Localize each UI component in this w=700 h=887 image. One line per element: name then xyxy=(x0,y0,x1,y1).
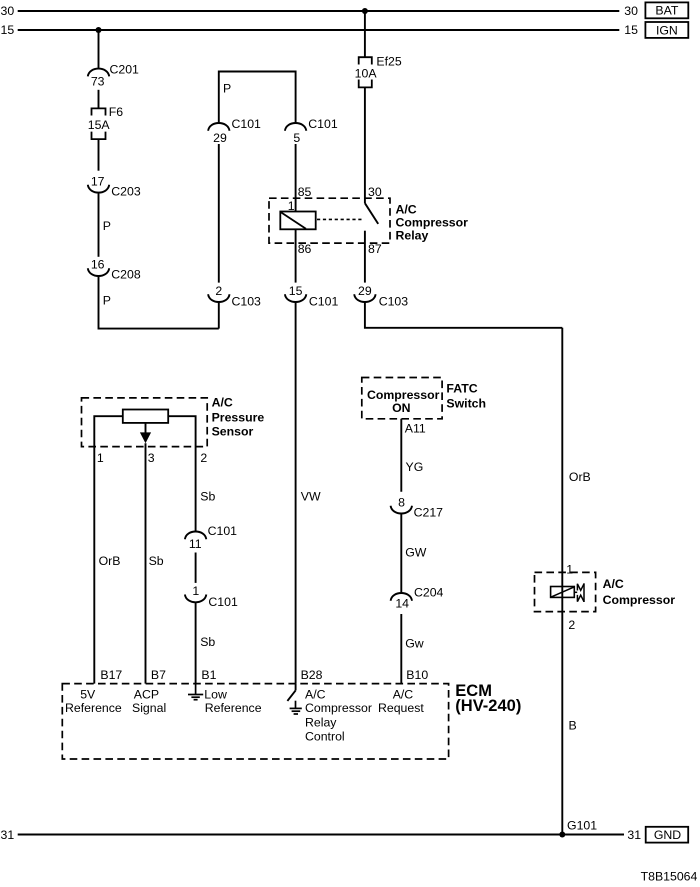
wire C201 to F6 xyxy=(98,90,100,109)
svg-text:C203: C203 xyxy=(111,184,141,198)
fuse F6 15A xyxy=(88,105,124,139)
svg-text:B7: B7 xyxy=(151,668,166,682)
svg-text:29: 29 xyxy=(213,131,227,145)
svg-text:T8B15064: T8B15064 xyxy=(641,870,698,884)
clutch xyxy=(577,583,584,602)
svg-text:Ef25: Ef25 xyxy=(376,54,401,68)
svg-text:15: 15 xyxy=(1,23,15,37)
5V Reference label xyxy=(65,688,122,716)
svg-text:C101: C101 xyxy=(208,524,238,538)
svg-text:C217: C217 xyxy=(414,505,444,519)
svg-text:8: 8 xyxy=(398,495,405,509)
svg-text:31: 31 xyxy=(1,828,15,842)
svg-text:B: B xyxy=(569,718,577,732)
ECM name label xyxy=(455,682,521,715)
wire bus15 to C201 xyxy=(98,30,100,69)
svg-text:Signal: Signal xyxy=(132,701,166,715)
svg-text:Reference: Reference xyxy=(205,701,262,715)
junction on bus 15 xyxy=(96,27,102,33)
svg-text:2: 2 xyxy=(200,451,207,465)
svg-text:Relay: Relay xyxy=(305,715,337,729)
relay switch contact xyxy=(364,231,366,283)
IGN box xyxy=(645,22,688,38)
svg-text:29: 29 xyxy=(358,284,372,298)
svg-text:31: 31 xyxy=(627,828,641,842)
bus 15 xyxy=(18,29,620,31)
connector C103 pin 29 xyxy=(354,284,408,308)
svg-text:C101: C101 xyxy=(208,595,238,609)
svg-text:Compressor: Compressor xyxy=(603,593,676,607)
relay coil-switch link xyxy=(317,218,363,220)
svg-text:Relay: Relay xyxy=(396,229,429,243)
sensor label xyxy=(212,396,265,439)
svg-text:OrB: OrB xyxy=(569,470,591,484)
svg-text:Sensor: Sensor xyxy=(212,425,254,439)
wire GW C217 to C204 xyxy=(400,514,402,594)
relay coil xyxy=(280,212,315,230)
FATC box label Compressor ON xyxy=(367,388,440,415)
A/C Pressure Sensor box xyxy=(82,398,208,447)
Low Reference label xyxy=(204,688,261,716)
svg-text:C101: C101 xyxy=(309,294,339,308)
compressor label xyxy=(603,577,676,607)
wire FATC to C217 xyxy=(400,419,402,492)
svg-text:15: 15 xyxy=(289,284,303,298)
FATC Switch box xyxy=(362,378,442,419)
ground at B28 xyxy=(290,701,302,714)
svg-text:A/C: A/C xyxy=(396,203,417,217)
svg-text:IGN: IGN xyxy=(656,23,678,37)
svg-text:A11: A11 xyxy=(405,422,426,436)
svg-text:VW: VW xyxy=(301,489,321,503)
connector C101 pin 11 xyxy=(185,524,237,551)
connector C217 pin 8 xyxy=(391,495,444,519)
svg-text:FATC: FATC xyxy=(446,382,477,396)
relay switch blade xyxy=(365,203,378,224)
svg-text:Compressor: Compressor xyxy=(367,388,440,402)
svg-text:Request: Request xyxy=(378,701,424,715)
bus 31 xyxy=(18,834,624,836)
ground junction G101 xyxy=(559,819,597,838)
svg-text:B17: B17 xyxy=(100,668,122,682)
svg-text:30: 30 xyxy=(368,185,382,199)
wire P C208 down and right to C103 pin 2 xyxy=(99,276,219,329)
ACP Signal label xyxy=(132,688,166,716)
svg-text:30: 30 xyxy=(1,4,15,18)
A/C Compressor Relay Control label xyxy=(305,688,372,744)
svg-text:1: 1 xyxy=(97,451,104,465)
svg-text:85: 85 xyxy=(298,185,312,199)
svg-text:C103: C103 xyxy=(232,294,262,308)
svg-text:ON: ON xyxy=(392,401,411,415)
wire OrB compressor feed and ground B xyxy=(561,328,563,835)
connector C203 pin 17 xyxy=(88,174,141,198)
connector C101 pin 15 xyxy=(285,284,339,308)
wire P C203 to C208 xyxy=(98,193,100,257)
svg-text:A/C: A/C xyxy=(305,688,326,702)
wire P stub over C101 xyxy=(219,72,296,124)
svg-text:Sb: Sb xyxy=(200,489,215,503)
relay label xyxy=(396,203,469,243)
ECM box xyxy=(62,684,448,759)
svg-text:A/C: A/C xyxy=(212,396,233,410)
svg-text:C101: C101 xyxy=(308,117,338,131)
svg-text:Switch: Switch xyxy=(446,397,486,411)
wire C103-2 down xyxy=(218,302,220,329)
svg-text:10A: 10A xyxy=(355,66,378,80)
svg-text:Compressor: Compressor xyxy=(396,216,469,230)
svg-text:14: 14 xyxy=(395,596,409,610)
wire B28 into ECM xyxy=(295,684,297,691)
svg-text:GND: GND xyxy=(654,828,681,842)
svg-text:Low: Low xyxy=(204,688,227,702)
svg-text:A/C: A/C xyxy=(393,688,414,702)
compressor clutch coil xyxy=(551,587,575,598)
wire relay coil to C101 pin 15 xyxy=(295,229,297,282)
sensor potentiometer xyxy=(123,410,168,423)
svg-text:C208: C208 xyxy=(111,268,141,282)
svg-text:B1: B1 xyxy=(201,668,216,682)
sensor wiper xyxy=(140,423,151,443)
wire OrB sensor pin1 to ECM B17 xyxy=(94,416,123,683)
svg-text:Compressor: Compressor xyxy=(305,701,372,715)
svg-text:15: 15 xyxy=(624,23,638,37)
A/C Compressor box xyxy=(535,572,596,611)
connector C204 pin 14 xyxy=(391,585,444,610)
connector C208 pin 16 xyxy=(88,257,141,281)
wire VW to ECM B28 xyxy=(295,302,297,684)
wire Ef25 to relay switch xyxy=(364,87,366,203)
svg-text:Sb: Sb xyxy=(149,554,164,568)
svg-text:C204: C204 xyxy=(414,585,444,599)
relay A/C Compressor Relay box xyxy=(269,198,390,243)
svg-text:C201: C201 xyxy=(110,63,140,77)
svg-text:P: P xyxy=(103,219,111,233)
svg-text:B28: B28 xyxy=(301,668,323,682)
svg-text:17: 17 xyxy=(91,174,105,188)
svg-text:30: 30 xyxy=(624,4,638,18)
wire C101-5 to relay coil xyxy=(295,144,297,212)
svg-text:3: 3 xyxy=(148,451,155,465)
wire C101-11 to C101-1 xyxy=(195,553,197,583)
svg-text:1: 1 xyxy=(192,584,199,598)
connector C201 pin 73 xyxy=(88,63,139,89)
svg-text:C103: C103 xyxy=(379,294,409,308)
FATC Switch label xyxy=(446,382,486,411)
ground at B1 xyxy=(188,684,203,700)
svg-text:GW: GW xyxy=(405,546,427,560)
connector C101 pin 1 xyxy=(185,584,238,609)
wire Sb sensor pin2 to C101 pin 11 xyxy=(168,416,195,531)
A/C Request label xyxy=(378,688,424,716)
BAT box xyxy=(645,2,688,18)
svg-text:YG: YG xyxy=(406,460,424,474)
junction on bus 30 xyxy=(362,8,368,14)
svg-text:16: 16 xyxy=(91,257,105,271)
svg-text:P: P xyxy=(223,82,231,96)
svg-text:87: 87 xyxy=(368,242,382,256)
svg-text:ACP: ACP xyxy=(134,688,159,702)
fuse Ef25 10A xyxy=(355,54,402,87)
svg-text:5: 5 xyxy=(293,131,300,145)
svg-text:5V: 5V xyxy=(80,688,96,702)
svg-text:P: P xyxy=(103,293,111,307)
connector C101 pin 29 xyxy=(208,117,261,145)
svg-text:B10: B10 xyxy=(406,668,428,682)
svg-text:F6: F6 xyxy=(109,105,124,119)
svg-text:OrB: OrB xyxy=(99,554,121,568)
svg-text:73: 73 xyxy=(91,75,105,89)
svg-text:86: 86 xyxy=(298,242,312,256)
wire Sb sensor pin3 to ECM B7 xyxy=(145,443,147,683)
svg-text:Reference: Reference xyxy=(65,701,122,715)
svg-text:A/C: A/C xyxy=(603,577,624,591)
wire C101-29 to C103-2 xyxy=(218,144,220,283)
svg-text:11: 11 xyxy=(189,537,202,551)
svg-text:Sb: Sb xyxy=(200,635,215,649)
svg-text:BAT: BAT xyxy=(655,4,678,18)
wire F6 to C203 xyxy=(98,139,100,171)
svg-text:2: 2 xyxy=(568,618,575,632)
svg-text:1: 1 xyxy=(566,563,573,577)
bus 30 xyxy=(18,10,620,12)
svg-text:Gw: Gw xyxy=(405,636,424,650)
wire bus30 to Ef25 xyxy=(364,11,366,57)
svg-text:G101: G101 xyxy=(567,819,597,833)
wire Gw C204 to ECM B10 xyxy=(400,614,402,684)
wire C103-29 right to compressor column xyxy=(365,302,562,328)
svg-text:2: 2 xyxy=(215,284,222,298)
svg-text:Control: Control xyxy=(305,730,345,744)
svg-text:(HV-240): (HV-240) xyxy=(455,697,521,715)
svg-text:Pressure: Pressure xyxy=(212,411,265,425)
connector C103 pin 2 xyxy=(208,284,261,308)
svg-text:C101: C101 xyxy=(232,117,262,131)
wire Sb C101-1 to ECM B1 xyxy=(195,602,197,683)
ECM switch blade at B28 xyxy=(287,690,295,701)
connector C101 pin 5 xyxy=(285,117,338,145)
svg-text:15A: 15A xyxy=(88,118,111,132)
GND box xyxy=(646,827,689,843)
clutch link xyxy=(574,591,577,593)
